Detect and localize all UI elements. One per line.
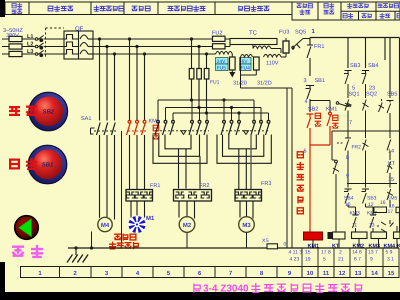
svg-text:SB2: SB2: [42, 109, 54, 116]
incoming supply wires: [2, 39, 9, 54]
svg-text:31/2D: 31/2D: [257, 81, 272, 87]
svg-text:17: 17: [388, 209, 394, 215]
svg-text:4: 4: [305, 99, 308, 105]
svg-text:FR2: FR2: [199, 183, 209, 189]
contactor KM3 contacts: [189, 120, 208, 135]
svg-text:3: 3: [304, 78, 307, 84]
coil KM1 (energized red): [304, 232, 323, 240]
svg-text:KM2: KM2: [367, 211, 378, 217]
svg-text:3-4 Z3040: 3-4 Z3040: [203, 283, 249, 294]
svg-text:15: 15: [388, 177, 394, 183]
svg-text:4 11 3: 4 11 3: [289, 250, 303, 256]
wire: bottom neutral rail: [68, 247, 399, 249]
svg-text:15: 15: [305, 250, 311, 256]
buttons SB4 SB3 / contact KM5 row: [344, 184, 352, 208]
svg-text:FR2: FR2: [352, 145, 362, 151]
svg-text:SQ5: SQ5: [295, 30, 306, 36]
svg-text:KM2: KM2: [353, 243, 365, 249]
svg-text:FR1: FR1: [150, 183, 160, 189]
svg-text:KM3: KM3: [350, 211, 361, 217]
wires below secondaries: [241, 57, 293, 248]
svg-text:KM5: KM5: [387, 196, 398, 202]
svg-text:SB4: SB4: [344, 196, 354, 202]
svg-text:2: 2: [339, 250, 342, 256]
wire: feeders M1 branch: [130, 39, 145, 121]
contactor KM1 main contacts (closed, red): [127, 120, 146, 135]
terminal wire-number grid: [302, 248, 399, 267]
svg-text:380V: 380V: [6, 33, 19, 39]
wire: link bus to KM2/KM3/KM4/KM5: [158, 100, 269, 113]
breaker contacts of QF: [35, 35, 64, 55]
coil KT: [328, 232, 333, 239]
label 后退: [13, 247, 23, 256]
svg-text:L2: L2: [27, 41, 33, 47]
svg-text:13: 13: [369, 223, 375, 229]
svg-text:9: 9: [346, 174, 349, 180]
svg-text:14: 14: [371, 270, 378, 277]
node taps on buses: [98, 37, 208, 55]
wire: feeder drops into branch fuses: [192, 39, 207, 69]
wire: KM1 contacts to FR1: [130, 135, 145, 190]
svg-text:9: 9: [370, 257, 373, 263]
contactor KM4 contacts: [221, 120, 240, 135]
wire: L1 bus: [93, 38, 230, 40]
motor M4: [98, 217, 112, 231]
thermal relay box: [126, 190, 153, 202]
motor M1 (spinning fan icon): [128, 216, 146, 234]
svg-text:KM1: KM1: [326, 107, 337, 113]
svg-text:5: 5: [323, 257, 326, 263]
svg-text:FU3: FU3: [279, 30, 289, 36]
wire: feeders M4 branch: [100, 39, 115, 121]
stop button SB1: [28, 145, 67, 184]
wire: FR to motors: [131, 201, 145, 218]
fuse FU1 (3x): [9, 36, 22, 41]
contact KM1 lower: [335, 160, 338, 163]
svg-text:FU1: FU1: [210, 80, 220, 86]
svg-text:M3: M3: [242, 222, 251, 229]
svg-text:0: 0: [284, 242, 287, 248]
motor M2: [179, 217, 195, 233]
svg-text:11: 11: [352, 223, 357, 229]
contactor KM2 contacts: [155, 120, 174, 135]
svg-text:SB1: SB1: [315, 78, 325, 84]
TC winding: [253, 46, 271, 49]
coil (right edge, partial): [394, 232, 400, 239]
transformer 6V secondary + FU4: [241, 55, 253, 58]
interlock dashed line + latch KM4/KM5: [222, 130, 270, 132]
svg-text:5 9: 5 9: [386, 250, 393, 256]
svg-text:16: 16: [380, 200, 386, 206]
wire: control rail 1: [310, 37, 400, 39]
svg-text:M2: M2: [183, 222, 192, 229]
24V pilot winding on L3: [216, 52, 233, 55]
header row of function-zone labels: [5, 2, 400, 20]
crossover U-links KM4/KM5: [217, 135, 271, 190]
start button SB2: [29, 92, 68, 131]
svg-text:6 7: 6 7: [354, 257, 361, 263]
svg-text:8: 8: [346, 155, 349, 161]
svg-text:10: 10: [307, 270, 314, 277]
svg-text:FR1: FR1: [314, 44, 324, 50]
svg-text:110V: 110V: [266, 61, 279, 67]
wire: rail drops: [310, 38, 400, 233]
label 停止: [10, 159, 36, 169]
svg-text:13 7: 13 7: [368, 250, 378, 256]
wire: L2 bus: [93, 46, 230, 48]
wire: spare feeder: [121, 131, 123, 248]
back button: [15, 216, 39, 240]
thermal relay box: [174, 190, 212, 202]
svg-text:21: 21: [338, 257, 344, 263]
contactor KM5 contacts: [251, 120, 270, 135]
label 起动: [10, 107, 36, 115]
svg-text:XS: XS: [262, 238, 269, 244]
svg-text:FR3: FR3: [261, 181, 271, 187]
svg-text:12: 12: [339, 270, 346, 277]
svg-text:17 8: 17 8: [321, 250, 331, 256]
svg-text:M4: M4: [101, 222, 110, 229]
svg-text:11: 11: [323, 270, 330, 277]
svg-text:13: 13: [355, 270, 362, 277]
wire: L3 bus: [93, 53, 216, 55]
svg-text:KM4: KM4: [384, 243, 397, 249]
svg-text:7: 7: [349, 120, 352, 126]
wire: KM5 pass-down: [250, 135, 252, 190]
svg-text:M1: M1: [146, 215, 155, 222]
svg-text:FU4: FU4: [241, 66, 251, 72]
caption: main motor starts rotating (red): [115, 234, 136, 240]
wire: red run to KM1 coil + caption "automatic circuit active": [309, 145, 311, 232]
motor M3: [239, 217, 255, 233]
fuse FU1 branch fuses (3x): [189, 69, 209, 80]
svg-text:19: 19: [305, 257, 311, 263]
contact (KV): [363, 136, 369, 184]
svg-text:SB2: SB2: [308, 107, 318, 113]
thermal relay box: [235, 190, 262, 202]
bottom terminal strip 1-15: [21, 267, 400, 278]
svg-text:L3: L3: [27, 49, 33, 55]
interlock dashed line + latch KM2/KM3: [156, 130, 209, 132]
svg-text:SA1: SA1: [81, 116, 91, 122]
transformer 110V secondary: [264, 54, 282, 57]
svg-text:15: 15: [388, 270, 395, 277]
svg-text:L1: L1: [27, 34, 33, 40]
svg-text:14: 14: [388, 149, 394, 155]
svg-text:4 23: 4 23: [290, 257, 300, 263]
QF linkage dashed line: [46, 28, 65, 58]
svg-text:FU5: FU5: [217, 66, 227, 72]
contact KM1 arm-lift enable: [336, 102, 339, 105]
frame corner fills: [0, 0, 5, 17]
svg-text:SQ1: SQ1: [349, 92, 360, 98]
svg-text:14 6: 14 6: [352, 250, 362, 256]
svg-text:FU2: FU2: [212, 31, 222, 37]
title: fig 3-4 Z3040 radial drilling machine electrical schematic: [194, 284, 200, 292]
svg-text:SQ2: SQ2: [366, 92, 377, 98]
svg-text:SB1: SB1: [42, 162, 54, 169]
svg-text:31/20: 31/20: [233, 81, 247, 87]
ground symbol: [75, 248, 77, 255]
coil KM3: [371, 232, 387, 239]
svg-text:3 1: 3 1: [387, 257, 394, 263]
wire: control mesh frame: [332, 131, 400, 184]
svg-text:SB5: SB5: [387, 92, 397, 98]
svg-text:SB3: SB3: [367, 196, 377, 202]
coil KM2: [352, 232, 368, 239]
svg-text:TC: TC: [249, 30, 258, 37]
fuse below 24V winding: [231, 54, 233, 57]
crossover U-links KM2/KM3: [153, 135, 207, 189]
svg-text:SB4: SB4: [368, 63, 378, 69]
wire: SA1 to M4: [100, 135, 115, 220]
header cell texts (pseudo CJK): [12, 3, 22, 8]
svg-text:SB3: SB3: [350, 63, 360, 69]
